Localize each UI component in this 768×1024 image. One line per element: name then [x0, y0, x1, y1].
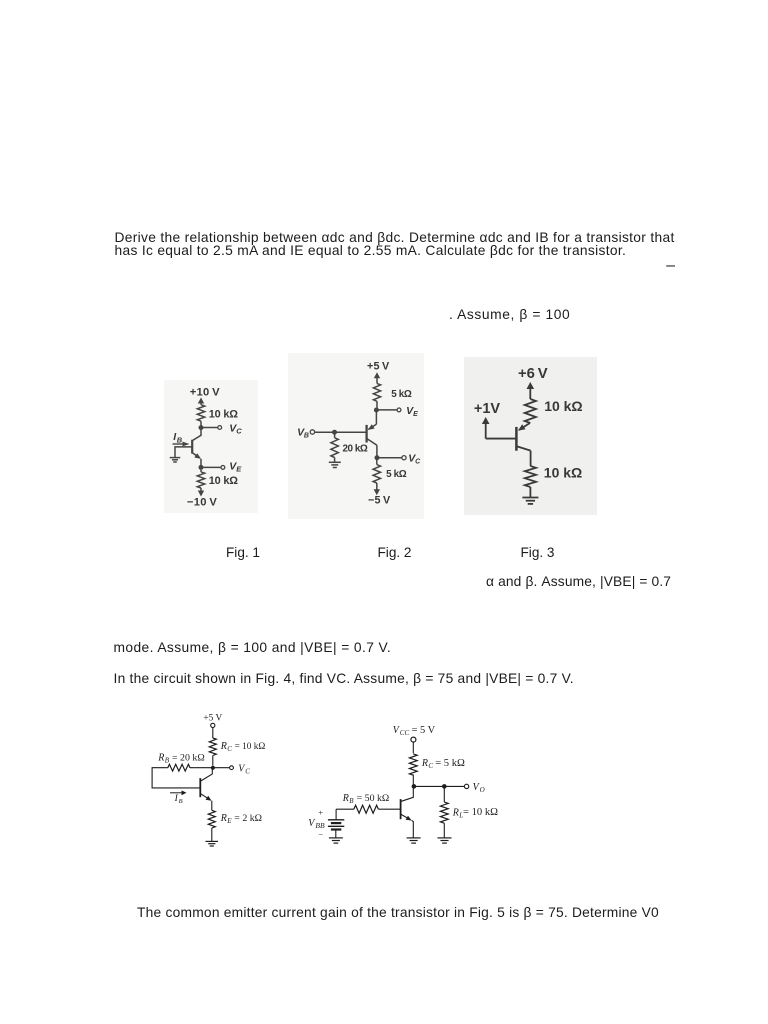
svg-text:= 5 V: = 5 V — [412, 725, 436, 736]
svg-text:C: C — [227, 745, 232, 753]
svg-text:+10 V: +10 V — [190, 386, 220, 398]
svg-text:B: B — [179, 798, 183, 805]
svg-text:B: B — [349, 797, 354, 805]
svg-text:= 20 kΩ: = 20 kΩ — [172, 752, 205, 763]
svg-text:CC: CC — [400, 729, 410, 737]
svg-text:+6 V: +6 V — [518, 366, 548, 382]
svg-text:B: B — [304, 433, 309, 440]
svg-text:E: E — [226, 817, 232, 825]
svg-text:R: R — [157, 752, 164, 763]
svg-text:B: B — [165, 756, 170, 764]
svg-text:B: B — [177, 436, 183, 445]
svg-text:= 50 kΩ: = 50 kΩ — [357, 793, 390, 804]
svg-text:O: O — [480, 786, 485, 794]
svg-text:10 kΩ: 10 kΩ — [209, 409, 238, 421]
svg-text:10 kΩ: 10 kΩ — [544, 465, 582, 481]
svg-text:= 10 kΩ: = 10 kΩ — [235, 742, 266, 752]
svg-text:10 kΩ: 10 kΩ — [209, 475, 238, 487]
svg-text:C: C — [428, 762, 433, 770]
svg-text:R: R — [452, 808, 459, 819]
svg-text:−5 V: −5 V — [368, 495, 391, 507]
svg-text:5 kΩ: 5 kΩ — [386, 469, 407, 480]
svg-text:C: C — [236, 426, 242, 435]
svg-text:+5 V: +5 V — [367, 360, 390, 372]
svg-text:= 10 kΩ: = 10 kΩ — [463, 807, 498, 818]
svg-text:R: R — [342, 793, 349, 804]
svg-text:E: E — [413, 411, 418, 418]
svg-text:−: − — [318, 830, 323, 840]
svg-text:10 kΩ: 10 kΩ — [544, 398, 582, 414]
svg-text:C: C — [245, 768, 250, 776]
svg-text:5 kΩ: 5 kΩ — [391, 389, 412, 400]
svg-text:R: R — [220, 813, 227, 824]
svg-text:R: R — [220, 741, 227, 752]
svg-text:= 2 kΩ: = 2 kΩ — [234, 813, 262, 824]
svg-text:= 5 kΩ: = 5 kΩ — [435, 758, 465, 769]
svg-text:+1V: +1V — [474, 401, 501, 417]
svg-text:+5 V: +5 V — [203, 713, 222, 723]
svg-text:−10 V: −10 V — [187, 497, 217, 509]
svg-text:BB: BB — [315, 821, 325, 830]
svg-text:20 kΩ: 20 kΩ — [343, 444, 368, 455]
svg-text:R: R — [421, 758, 428, 769]
svg-text:+: + — [318, 808, 323, 818]
